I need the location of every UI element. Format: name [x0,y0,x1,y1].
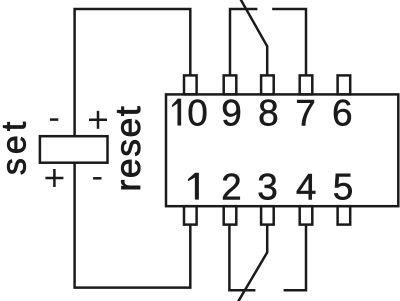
pin label 1 [188,173,198,199]
wire pin 7 contact [272,9,306,75]
svg-text:8: 8 [258,92,279,133]
svg-text:7: 7 [295,92,316,133]
switch blade bottom (pin 3 common) [238,225,268,301]
svg-text:2: 2 [221,166,242,207]
svg-text:9: 9 [221,92,242,133]
pin 5 [338,206,351,224]
wire pin 2 contact [229,225,255,291]
pin 7 [300,75,313,94]
label minus (set top) [50,118,58,121]
pin 1 [184,206,197,224]
pin 9 [224,75,237,94]
pin 4 [300,206,313,224]
svg-text:6: 6 [332,92,353,133]
pin 10 [184,75,197,94]
svg-text:4: 4 [296,166,317,207]
wire pin 4 contact [284,225,306,291]
wire pin 9 contact [230,9,257,75]
pin label 10 [172,99,181,125]
svg-text:set: set [0,118,33,175]
pin 8 [261,75,274,94]
coil K1 [40,136,108,163]
wire coil top to pin 10 [75,9,191,136]
label plus (set bottom) [45,177,63,180]
relay body U1 [166,94,398,206]
svg-text:5: 5 [333,166,354,207]
pin 2 [224,206,237,224]
pin 6 [338,75,351,94]
svg-text:0: 0 [187,92,208,133]
label plus (reset top) [89,119,107,122]
svg-text:reset: reset [108,105,148,192]
wire coil bottom to pin 1 [75,163,191,288]
switch blade top (pin 8 common) [240,0,267,75]
svg-text:3: 3 [257,166,278,207]
pin 3 [261,206,274,224]
label minus (reset bottom) [93,177,101,180]
